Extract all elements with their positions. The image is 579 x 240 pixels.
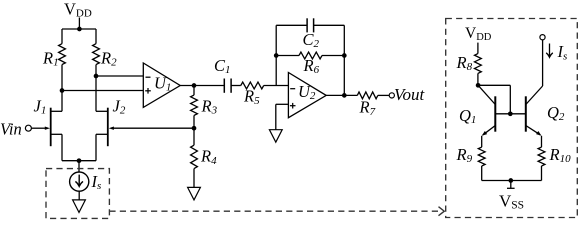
svg-text:VDD: VDD bbox=[465, 25, 492, 43]
svg-text:VSS: VSS bbox=[499, 192, 524, 212]
svg-text:R4: R4 bbox=[200, 147, 217, 167]
svg-text:Is: Is bbox=[557, 42, 568, 62]
svg-text:R7: R7 bbox=[359, 98, 376, 118]
svg-text:U2: U2 bbox=[298, 82, 316, 102]
svg-text:R9: R9 bbox=[456, 145, 473, 165]
svg-text:Vout: Vout bbox=[394, 85, 426, 104]
svg-text:J2: J2 bbox=[113, 97, 126, 117]
svg-text:R8: R8 bbox=[456, 53, 473, 73]
svg-text:Q2: Q2 bbox=[547, 103, 565, 123]
svg-text:R6: R6 bbox=[303, 56, 320, 76]
svg-text:R10: R10 bbox=[549, 145, 572, 165]
svg-text:U1: U1 bbox=[154, 73, 171, 93]
svg-text:Q1: Q1 bbox=[459, 106, 476, 126]
svg-text:Vin: Vin bbox=[0, 119, 22, 138]
svg-text:R1: R1 bbox=[42, 48, 59, 68]
svg-text:R2: R2 bbox=[100, 48, 117, 68]
svg-text:R5: R5 bbox=[243, 87, 260, 107]
svg-text:C1: C1 bbox=[214, 56, 231, 76]
svg-text:VDD: VDD bbox=[64, 0, 92, 20]
svg-text:Is: Is bbox=[91, 172, 102, 192]
svg-text:R3: R3 bbox=[201, 97, 218, 117]
svg-text:J1: J1 bbox=[34, 97, 47, 117]
svg-text:C2: C2 bbox=[303, 30, 320, 50]
